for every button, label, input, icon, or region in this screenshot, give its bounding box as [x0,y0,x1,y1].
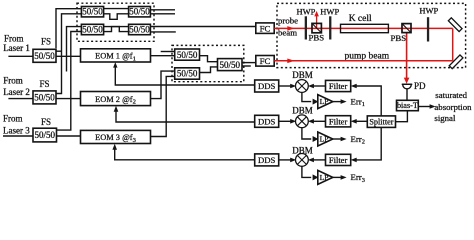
EOM1 [81,49,151,63]
wire N2-R to FC2 [242,62,256,64]
svg-text:Laser 3: Laser 3 [3,126,30,136]
wire laser1 to FS1 [8,55,33,57]
fiber splitter FS1 [33,49,56,62]
photodiode PD [402,84,413,89]
wire BR to FC1 [150,26,255,28]
svg-text:Err1: Err1 [351,96,365,108]
svg-text:FS: FS [41,37,51,47]
svg-text:probe: probe [278,16,298,26]
svg-text:PBS: PBS [309,33,325,43]
coupler N1-BL [81,24,103,34]
wire EOM2 to N2-B [151,71,175,99]
svg-text:FS: FS [40,79,50,89]
svg-text:LP: LP [320,173,329,182]
coupler N1-TR [129,7,151,17]
wire TL to TR lower (dip under) [104,14,129,19]
svg-text:DBM: DBM [292,70,313,80]
servo amplifier LP2 [318,132,333,146]
pump beam direction arrow (red) [287,59,294,64]
wire BL top to BR bottom (crossover) [104,27,129,32]
servo amplifier LP1 [318,95,333,109]
arrow amplifier1 to error output [333,99,347,104]
svg-text:From: From [3,113,23,123]
wire FS1 up to combiner TL input 1 [56,9,81,49]
wire splitter to filter3 [351,127,382,162]
PBS1 rejected beam up (red) [314,11,319,29]
laser 3 source label [3,113,30,135]
fiber splitter FS2 [33,91,56,104]
filter 1 [326,80,351,91]
EOM3 [81,130,151,144]
coupler N2-R [218,59,243,71]
half-wave plate HWP1 [305,16,307,39]
mixer DBM1 [296,80,309,93]
wire PD to bias-T [406,89,408,100]
half-wave plate HWP3 [427,17,429,41]
splitter [367,116,395,128]
wire splitter to filter1 [351,84,382,116]
wire bias-T to splitter [396,111,408,122]
wire FS3 up to combiner BL input 2 [57,32,82,131]
wire DBM3 to amplifier3 [302,166,319,180]
output stub BR-2 [150,31,175,33]
svg-text:From: From [4,33,24,43]
saturated absorption signal label [434,90,472,123]
EOM2 [81,92,151,106]
filter 2 [326,116,351,127]
svg-text:Laser 1: Laser 1 [3,43,30,53]
probe beam direction arrow (red) [287,26,294,31]
feedback wire DDS1 to EOM1 [113,62,255,85]
svg-text:DDS: DDS [258,155,276,165]
unused input stub of N2-T [161,51,175,53]
fiber coupler FC1 [256,23,274,34]
laser 2 source label [3,76,30,98]
pump beam fold vertical (red) [452,28,454,60]
arrow amplifier2 to error output [333,137,347,142]
svg-text:50/50: 50/50 [129,7,150,17]
laser 1 source label [3,33,30,53]
probe beam label [278,16,298,38]
wire FS2 to EOM2 [56,98,81,100]
DDS1 [255,80,279,92]
wire splitter to filter2 [351,119,368,124]
svg-text:Filter: Filter [329,116,348,126]
polarizing beam splitter PBS2 [402,24,411,33]
feedback wire DDS2 to EOM2 [114,106,255,122]
bias-T [397,100,419,110]
svg-text:50/50: 50/50 [129,25,150,35]
wire laser2 to FS2 [8,98,33,100]
svg-text:50/50: 50/50 [82,25,103,35]
coupler N2-T [175,49,200,60]
mixer DBM2 [296,115,309,128]
svg-text:50/50: 50/50 [35,130,56,140]
coupler N1-TL [81,7,103,17]
svg-text:50/50: 50/50 [82,7,103,17]
wire FS2 up to combiner TL input 2 [56,14,81,94]
feedback wire DDS3 to EOM3 [112,144,254,160]
svg-text:50/50: 50/50 [34,92,55,102]
svg-text:PD: PD [414,81,426,91]
wire TL to TR [104,8,129,10]
svg-text:50/50: 50/50 [177,69,198,79]
svg-text:signal: signal [434,113,456,123]
svg-text:DBM: DBM [292,145,313,155]
servo amplifier LP3 [318,170,333,184]
svg-text:50/50: 50/50 [177,50,198,60]
coupler N1-BR [129,24,151,34]
beam PBS2 to photodiode (red) [404,33,410,84]
svg-text:Err3: Err3 [351,172,365,184]
wire N2-B to N2-R [200,67,218,73]
svg-text:LP: LP [320,97,329,106]
svg-text:FC: FC [260,56,271,66]
svg-text:Filter: Filter [329,155,348,165]
svg-text:From: From [3,76,23,86]
svg-text:LP: LP [320,135,329,144]
svg-text:50/50: 50/50 [219,60,240,70]
svg-text:DDS: DDS [258,117,276,127]
svg-text:Err2: Err2 [351,134,365,146]
wire FS1 to EOM1 [56,55,81,57]
fiber splitter FS3 [33,128,57,142]
output stub TR-2 [150,13,175,15]
svg-text:bias-T: bias-T [397,101,418,110]
svg-text:HWP: HWP [419,6,438,16]
svg-text:FC: FC [260,23,271,33]
wire EOM3 to N2-B [151,76,175,136]
wire DBM2 to amplifier2 [302,128,319,143]
arrow filter2 to DBM2 [308,119,326,124]
dashed enclosure: fiber combiner network 2 [172,45,244,81]
arrow DDS2 to DBM2 [279,119,297,124]
arrow filter1 to DBM1 [308,84,326,89]
wire FS3 to EOM3 [57,135,81,137]
fold mirror M2 (bottom right) [449,55,463,69]
svg-text:Splitter: Splitter [369,118,393,127]
svg-text:Laser 2: Laser 2 [3,87,30,97]
pump beam (red) [274,60,453,62]
arrow amplifier3 to error output [333,175,347,180]
coupler N2-B [175,68,200,79]
wire FS1 jog to riser [56,50,62,52]
wire laser3 to FS3 [3,135,33,137]
wire EOM1 to N2-T [151,55,175,57]
svg-text:DBM: DBM [292,105,313,115]
arrow DDS1 to DBM1 [279,84,297,89]
arrow DDS3 to DBM3 [279,158,297,163]
svg-text:FS: FS [41,117,51,127]
fiber coupler FC2 [256,56,274,67]
probe beam (red) [274,27,453,29]
dashed enclosure: fiber combiner network 1 [77,3,154,41]
unused input stub of BL [67,27,82,72]
fold mirror M1 (top right) [448,18,462,32]
svg-text:HWP: HWP [297,6,316,16]
svg-text:Filter: Filter [329,81,348,91]
svg-text:saturated: saturated [435,90,467,100]
wire BL bottom to BR top (crossover) [104,27,129,32]
mixer DBM3 [296,154,309,167]
svg-text:50/50: 50/50 [34,51,55,61]
DDS2 [255,115,279,127]
svg-text:K cell: K cell [349,14,372,24]
output stub N2-R [242,65,251,67]
wire DBM1 to amplifier1 [302,92,319,104]
filter 3 [326,154,351,165]
arrow filter3 to DBM3 [308,158,326,163]
output stub TR-1 [150,9,175,11]
polarizing beam splitter PBS1 [312,23,321,32]
wire N2-T to N2-R [200,56,218,62]
arrow bias-T to DC output [418,104,435,109]
potassium vapor K cell [341,24,389,32]
svg-text:PBS: PBS [391,33,407,43]
dashed enclosure: saturated absorption spectroscopy [277,3,466,67]
half-wave plate HWP2 [329,16,331,39]
svg-text:absorption: absorption [434,102,472,112]
svg-text:HWP: HWP [320,6,339,16]
svg-text:DDS: DDS [258,81,276,91]
DDS3 [255,154,279,166]
